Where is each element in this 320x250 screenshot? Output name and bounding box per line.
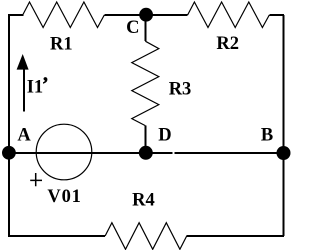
resistor R2 xyxy=(188,2,270,28)
wire left vertical xyxy=(8,15,10,236)
svg-text:I1: I1 xyxy=(27,77,43,97)
plus sign of V01 xyxy=(30,173,42,186)
wire right vertical xyxy=(283,15,285,236)
resistor R4 xyxy=(105,223,187,250)
svg-text:R2: R2 xyxy=(216,34,239,54)
svg-text:R1: R1 xyxy=(50,34,73,54)
wire node C down to R3 xyxy=(145,15,147,41)
resistor R1 xyxy=(23,2,105,28)
wire R1 to node C xyxy=(104,14,146,16)
wire R2 to top-right corner xyxy=(269,14,284,16)
wire bottom-left segment xyxy=(8,235,105,237)
current arrow I1' shaft xyxy=(23,67,25,112)
svg-text:’: ’ xyxy=(42,75,48,95)
wire A through source to D xyxy=(9,152,146,154)
wire top-left segment xyxy=(8,14,23,16)
voltage source V01 circle xyxy=(36,124,92,180)
wire R4 to bottom-right corner xyxy=(187,235,284,237)
resistor R3 xyxy=(132,41,159,125)
svg-text:A: A xyxy=(17,125,31,145)
svg-text:R4: R4 xyxy=(132,191,155,211)
wire node C to R2 xyxy=(146,14,188,16)
svg-text:C: C xyxy=(126,18,139,38)
svg-text:D: D xyxy=(158,125,171,145)
svg-text:R3: R3 xyxy=(169,80,192,100)
node B xyxy=(277,146,291,160)
wire gap to B xyxy=(174,152,284,154)
node D xyxy=(139,146,153,160)
svg-text:B: B xyxy=(261,126,273,146)
node A xyxy=(2,146,16,160)
wire D to gap xyxy=(146,152,173,154)
wire R3 to node D xyxy=(145,126,147,153)
node C xyxy=(139,8,153,22)
current arrow I1' head xyxy=(17,54,29,70)
svg-text:V01: V01 xyxy=(47,187,81,207)
